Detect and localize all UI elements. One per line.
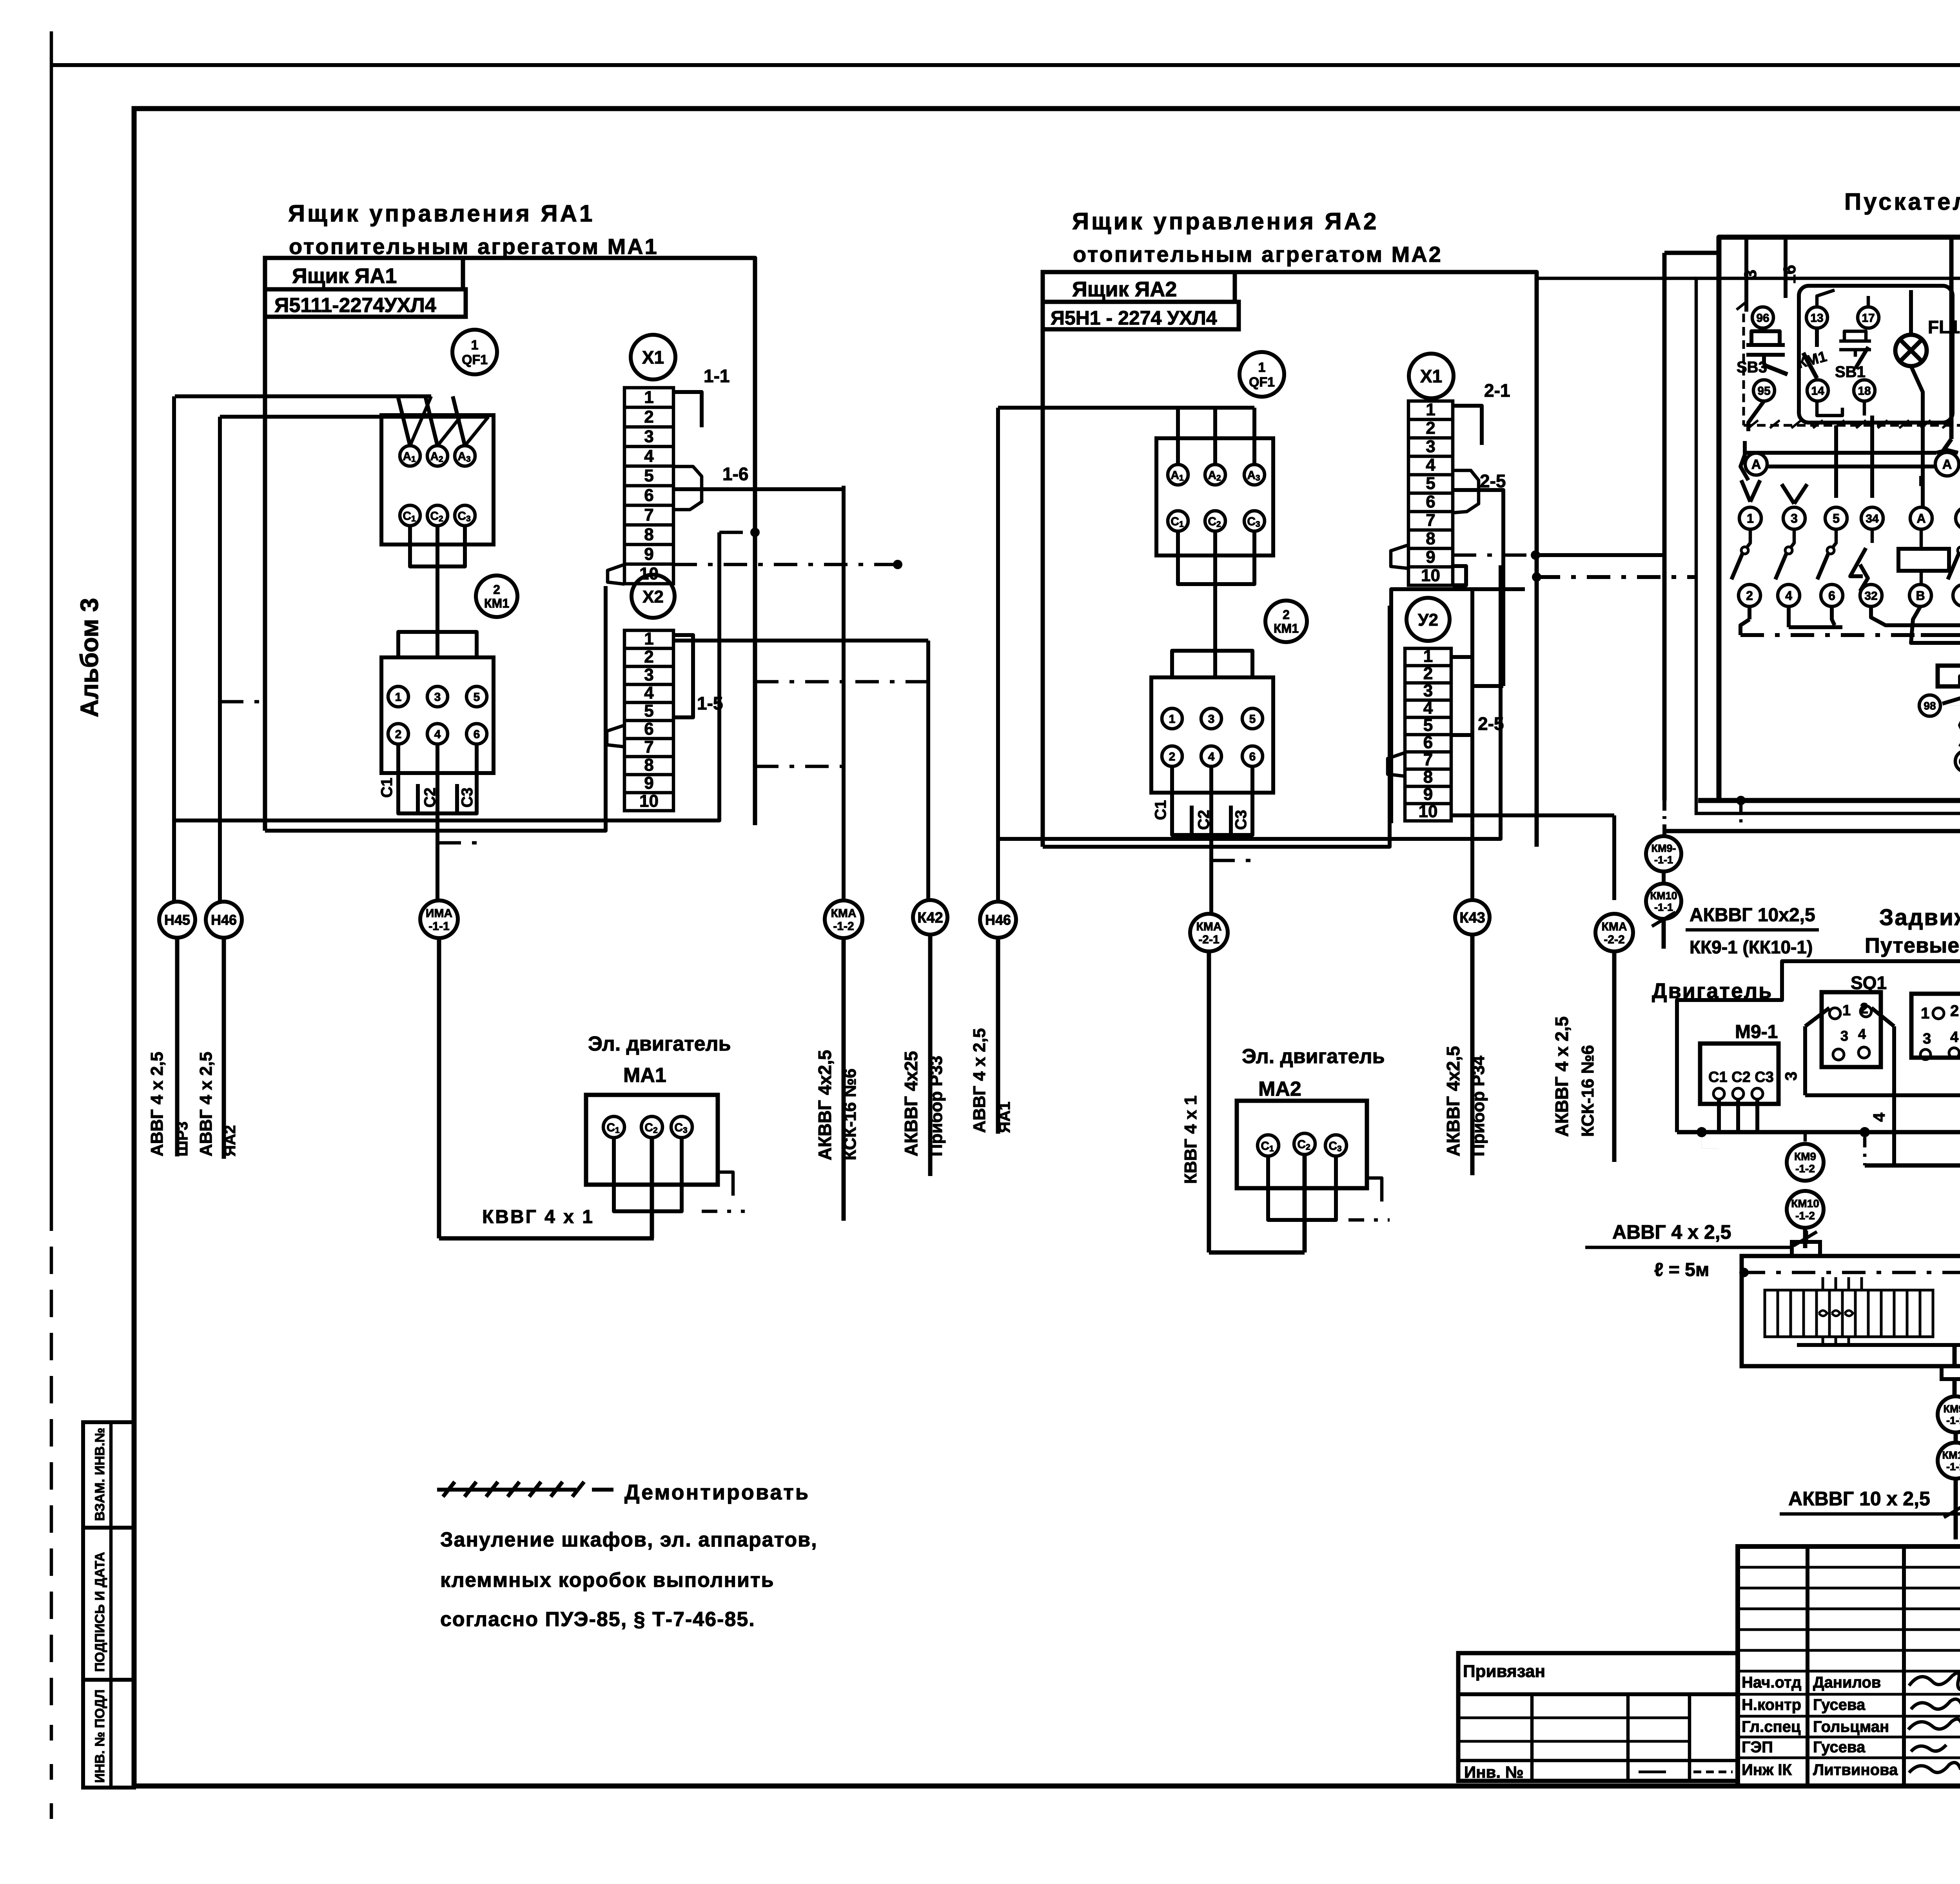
- svg-text:1: 1: [1258, 360, 1266, 375]
- svg-text:SB1: SB1: [1835, 363, 1866, 381]
- wires QF1 to KM1: [408, 526, 412, 552]
- wire H45 vertical: [172, 396, 176, 902]
- X1 YA2 cell10 hook: [1391, 545, 1408, 568]
- KM1 output stubs: [396, 744, 400, 800]
- SQ1 wire 3: [1803, 1026, 1807, 1095]
- wire 1-6: [673, 487, 844, 491]
- svg-text:SQ1: SQ1: [1851, 973, 1887, 993]
- svg-text:клеммных коробок выполнить: клеммных коробок выполнить: [440, 1569, 774, 1592]
- A bus merge: [1936, 450, 1958, 453]
- svg-text:1: 1: [644, 629, 653, 648]
- YA2 contact A3: [1244, 465, 1265, 485]
- contact group box SB1: [1799, 286, 1953, 423]
- svg-text:АКВВГ 10х2,5: АКВВГ 10х2,5: [1690, 905, 1815, 926]
- svg-text:3: 3: [1923, 1031, 1931, 1047]
- svg-text:-1-1: -1-1: [1654, 854, 1673, 866]
- svg-text:Данилов: Данилов: [1813, 1674, 1881, 1691]
- svg-text:КМ1: КМ1: [1274, 621, 1299, 635]
- svg-text:3: 3: [1791, 512, 1798, 526]
- svg-text:Задвижка М9-1 ( М 10-1): Задвижка М9-1 ( М 10-1): [1879, 905, 1960, 930]
- svg-text:4: 4: [1870, 1113, 1888, 1122]
- svg-text:6: 6: [644, 719, 653, 739]
- svg-text:Н46: Н46: [211, 912, 237, 928]
- svg-text:FL1: FL1: [1928, 317, 1960, 337]
- svg-text:Прибор Р33: Прибор Р33: [927, 1056, 946, 1156]
- svg-text:2: 2: [1169, 750, 1176, 763]
- svg-text:-1-2: -1-2: [1795, 1209, 1815, 1222]
- KM1 YA2 pole 6: [1242, 746, 1263, 766]
- KM1 pole 5: [466, 686, 487, 707]
- heater bottom bus: [1797, 1343, 1960, 1347]
- dashdot stub under KM1: [437, 841, 486, 845]
- terminal 14 SB1: [1807, 380, 1828, 401]
- wire KMA-1-2: [842, 486, 846, 900]
- branch to 5: [1834, 425, 1838, 498]
- svg-text:КК9-1 (КК10-1): КК9-1 (КК10-1): [1690, 937, 1813, 957]
- svg-text:КВВГ 4 х 1: КВВГ 4 х 1: [1181, 1096, 1200, 1184]
- svg-text:Н45: Н45: [164, 912, 190, 928]
- U2 left hook: [1388, 753, 1405, 776]
- contact C2: [427, 505, 448, 526]
- circle IMA-1-1: [420, 900, 458, 938]
- svg-text:5: 5: [1423, 715, 1433, 735]
- signature 2: [1911, 1699, 1960, 1709]
- svg-text:13: 13: [1810, 312, 1823, 325]
- motor MA2 C1: [1258, 1135, 1279, 1156]
- svg-text:А: А: [1942, 457, 1952, 472]
- heater block box: [1742, 1256, 1960, 1366]
- KM1 YA2 pole 2: [1162, 746, 1182, 766]
- svg-text:17: 17: [1862, 312, 1875, 325]
- titleblock main box: [1738, 1546, 1960, 1786]
- svg-text:3: 3: [1426, 437, 1435, 456]
- KM1 pole 2: [388, 724, 408, 744]
- terminal circle X1 YA2: [1409, 354, 1454, 398]
- YA2 dashdot stub: [1211, 859, 1260, 862]
- circle KMA-2-2: [1595, 914, 1633, 951]
- left margin stamp column: [83, 1422, 134, 1788]
- svg-text:КМ9: КМ9: [1794, 1151, 1816, 1163]
- wire H45 tail: [175, 938, 180, 1156]
- svg-text:Гольцман: Гольцман: [1813, 1718, 1889, 1735]
- svg-text:4: 4: [1858, 1026, 1866, 1042]
- motor MA1 box: [586, 1095, 718, 1185]
- zadvizhka bus lower: [1865, 1163, 1960, 1168]
- svg-text:2: 2: [644, 407, 653, 427]
- svg-text:-2-1: -2-1: [1198, 933, 1219, 946]
- svg-text:Пускатель: Пускатель: [1844, 189, 1960, 215]
- pole circle r1 34: [1861, 507, 1883, 529]
- svg-text:Н46: Н46: [985, 912, 1011, 928]
- bracket 1-1: [673, 392, 702, 427]
- svg-text:Инв. №: Инв. №: [1464, 1763, 1524, 1781]
- SB3 terminal 95: [1753, 380, 1775, 401]
- svg-text:Эл. двигатель: Эл. двигатель: [1242, 1045, 1385, 1068]
- svg-text:отопительным агрегатом МА: отопительным агрегатом МА1: [289, 234, 659, 259]
- wire 2-5a: [1453, 490, 1503, 565]
- svg-text:2-5: 2-5: [1480, 471, 1506, 491]
- svg-text:3: 3: [1423, 681, 1433, 700]
- svg-text:SB3: SB3: [1737, 359, 1767, 376]
- starter bottom bus: [1664, 829, 1960, 833]
- svg-text:6: 6: [644, 486, 653, 505]
- box YA1 label: [265, 258, 463, 289]
- svg-text:А: А: [1916, 512, 1926, 526]
- bus under row2 a: [1740, 619, 1749, 635]
- svg-text:9: 9: [1423, 784, 1433, 804]
- X2 wire right: [673, 639, 928, 643]
- svg-text:С3: С3: [1232, 810, 1250, 830]
- svg-text:КМ10: КМ10: [1942, 1449, 1960, 1461]
- wire KM9 left tail: [1662, 919, 1666, 949]
- svg-text:КМА: КМА: [1602, 920, 1627, 933]
- long wire lower1: [174, 532, 719, 820]
- wire H46 vertical: [218, 417, 222, 902]
- svg-text:6: 6: [1423, 733, 1433, 752]
- box SQ1: [1822, 992, 1881, 1067]
- motor MA1 C2: [641, 1116, 662, 1138]
- svg-text:7: 7: [644, 737, 653, 757]
- svg-text:-1-1: -1-1: [1946, 1461, 1960, 1473]
- wire H46b: [996, 408, 1000, 902]
- svg-text:6: 6: [1249, 750, 1256, 763]
- A circle 2: [1935, 452, 1959, 476]
- terminal circle X2: [632, 575, 675, 618]
- SQ1 wire 4: [1892, 1026, 1896, 1165]
- terminal strip X2: [624, 630, 673, 811]
- heater left bars: [1765, 1290, 1778, 1337]
- contact C1: [400, 505, 420, 526]
- U2 wire right: [1472, 684, 1503, 688]
- wire num 16: [1784, 237, 1788, 298]
- svg-text:МА2: МА2: [1258, 1078, 1301, 1100]
- branch to A: [1919, 476, 1923, 486]
- svg-text:В: В: [1916, 589, 1925, 603]
- branch to 3: [1782, 484, 1794, 504]
- switch 34: [1871, 529, 1874, 543]
- svg-text:7: 7: [1423, 750, 1433, 769]
- motor MA1 C1: [603, 1116, 624, 1138]
- svg-text:КМ9-: КМ9-: [1944, 1403, 1960, 1415]
- heater wire tab left: [1804, 1231, 1808, 1242]
- pole circle r2 2b: [1953, 584, 1960, 606]
- motor MA2 box: [1237, 1101, 1367, 1188]
- button SB3: [1751, 331, 1780, 345]
- QF1 contact box: [381, 415, 494, 545]
- svg-text:Гл.спец: Гл.спец: [1742, 1718, 1801, 1735]
- svg-text:А: А: [1751, 457, 1761, 472]
- pole circle r2 32: [1860, 584, 1882, 606]
- upper loop SB1 group: [1817, 401, 1842, 416]
- svg-text:-2-2: -2-2: [1604, 933, 1624, 946]
- svg-text:95: 95: [1757, 385, 1770, 397]
- wire IMA-1-1 tail: [437, 938, 441, 1238]
- bracket 2-1: [1453, 406, 1482, 445]
- bracket 2-5b: [1451, 657, 1472, 735]
- terminal strip X1: [624, 388, 673, 584]
- svg-text:-1-1: -1-1: [428, 920, 449, 933]
- KM1 YA2 contact box: [1151, 677, 1273, 793]
- svg-text:9: 9: [1426, 548, 1435, 567]
- svg-text:7: 7: [1426, 511, 1435, 530]
- svg-text:С3: С3: [459, 788, 476, 808]
- wire K42: [926, 641, 930, 898]
- svg-text:34: 34: [1866, 512, 1879, 525]
- svg-text:1: 1: [395, 691, 402, 704]
- enclosure YA1: [463, 258, 755, 825]
- motor MA2 C2: [1294, 1133, 1315, 1154]
- circle K42: [913, 900, 947, 935]
- svg-text:QF1: QF1: [462, 352, 488, 367]
- svg-text:ЯА2: ЯА2: [221, 1125, 239, 1156]
- svg-text:ВЗАМ. ИНВ.№: ВЗАМ. ИНВ.№: [93, 1428, 107, 1521]
- svg-text:ПОДПИСЬ И ДАТА: ПОДПИСЬ И ДАТА: [93, 1552, 107, 1672]
- motor M9-1 box: [1700, 1044, 1779, 1104]
- pole circle r1 5: [1825, 507, 1847, 529]
- motor MA1 C3: [671, 1116, 692, 1138]
- svg-text:1-1: 1-1: [704, 366, 730, 386]
- wire from YA1 drop: [1664, 251, 1719, 255]
- svg-text:К42: К42: [917, 910, 943, 926]
- KM1 jumpers top: [398, 632, 477, 657]
- pole circle r2 B: [1909, 584, 1931, 606]
- YA2 contact C3: [1244, 511, 1265, 531]
- zadvizhka enclosure: [1677, 961, 1960, 1132]
- signature 3: [1908, 1719, 1960, 1734]
- X1 cell10 hook: [608, 564, 624, 584]
- svg-text:3: 3: [644, 427, 653, 446]
- terminal C1 starter: [1955, 751, 1960, 772]
- X1 jog 4-6: [673, 466, 702, 510]
- left attach box: [1458, 1653, 1738, 1781]
- svg-text:Путевые выключатели: Путевые выключатели: [1865, 934, 1960, 957]
- pole circle r1 1: [1739, 507, 1761, 529]
- svg-text:АКВВГ 4 х 2,5: АКВВГ 4 х 2,5: [1552, 1016, 1572, 1137]
- circle H46b: [980, 902, 1016, 938]
- X1 YA2 cell9 dashdot: [1453, 554, 1537, 557]
- svg-text:18: 18: [1858, 385, 1871, 397]
- SQ1 levers: [1805, 1008, 1829, 1026]
- svg-text:КМ9-: КМ9-: [1651, 842, 1676, 854]
- svg-text:КМА: КМА: [831, 907, 857, 920]
- KM1 pole 4: [427, 724, 448, 744]
- starter outer box: [1719, 237, 1960, 800]
- svg-text:4: 4: [1426, 456, 1436, 475]
- X1 YA2 jog: [1453, 470, 1479, 513]
- svg-text:С1: С1: [378, 778, 396, 798]
- svg-text:1: 1: [1747, 512, 1754, 526]
- wire H46 tail: [222, 938, 226, 1159]
- dashdot to KMA-1-2: [755, 765, 844, 768]
- contact A1: [400, 446, 420, 466]
- svg-text:4: 4: [1423, 698, 1433, 717]
- terminal 18 SB1: [1854, 380, 1875, 401]
- svg-text:Прибор Р34: Прибор Р34: [1469, 1055, 1488, 1156]
- hatch ticks across: [1748, 420, 1758, 428]
- wire KM-1-2 tails: [1804, 1132, 1807, 1144]
- motor MA2 wires: [1266, 1156, 1270, 1208]
- svg-text:X1: X1: [1420, 366, 1442, 387]
- svg-text:6: 6: [1426, 492, 1435, 512]
- circle KM10-1-1 left: [1646, 884, 1681, 919]
- svg-text:96: 96: [1756, 312, 1769, 325]
- svg-text:QF1: QF1: [1249, 375, 1275, 390]
- QF1 YA2 contact box: [1156, 438, 1273, 555]
- circle KM10-1-1 bottom: [1938, 1443, 1960, 1479]
- svg-text:3: 3: [1741, 270, 1760, 279]
- svg-text:ШР3: ШР3: [174, 1122, 191, 1156]
- paper edge left: [50, 31, 53, 1231]
- svg-text:согласно ПУЭ-85, § Т-7-46-8: согласно ПУЭ-85, § Т-7-46-85.: [440, 1608, 755, 1631]
- svg-text:КМ10: КМ10: [1650, 890, 1677, 902]
- A circle 1: [1745, 453, 1767, 475]
- svg-text:АВВГ 4 х 2,5: АВВГ 4 х 2,5: [1612, 1221, 1731, 1243]
- svg-text:КВВГ 4 х 1: КВВГ 4 х 1: [482, 1207, 594, 1227]
- motor MA1 dashdot: [718, 1172, 733, 1196]
- svg-text:КСК-16 №6: КСК-16 №6: [1578, 1045, 1597, 1137]
- heater top tab left: [1792, 1242, 1820, 1256]
- svg-text:ЯА1: ЯА1: [996, 1102, 1013, 1133]
- YA2 dashdot to starter: [1537, 575, 1696, 579]
- svg-text:АВВГ 4 х 2,5: АВВГ 4 х 2,5: [970, 1028, 989, 1133]
- svg-text:Гусева: Гусева: [1813, 1696, 1866, 1713]
- svg-text:отопительным агрегатом МА: отопительным агрегатом МА2: [1073, 242, 1443, 267]
- svg-text:С2: С2: [1195, 810, 1212, 830]
- svg-text:С1: С1: [1958, 755, 1960, 769]
- svg-text:2: 2: [395, 728, 402, 741]
- svg-text:5: 5: [474, 691, 480, 704]
- svg-text:4: 4: [434, 728, 441, 741]
- svg-text:Гусева: Гусева: [1813, 1739, 1866, 1756]
- svg-text:98: 98: [1924, 700, 1936, 712]
- svg-text:3: 3: [644, 665, 653, 684]
- svg-text:4: 4: [1208, 750, 1215, 763]
- svg-text:У2: У2: [1418, 610, 1438, 630]
- contactor KM1 circle: [476, 575, 517, 617]
- svg-text:Альбом 3: Альбом 3: [75, 598, 103, 717]
- svg-text:Ящик ЯА1: Ящик ЯА1: [292, 264, 397, 288]
- long wire lower2: [265, 586, 606, 831]
- svg-text:4: 4: [644, 446, 654, 466]
- pole circle r1 A: [1910, 507, 1932, 529]
- terminal circle X1: [631, 335, 675, 379]
- dashdot into YA1 left: [220, 700, 265, 704]
- svg-text:3: 3: [1840, 1028, 1848, 1044]
- svg-text:9: 9: [644, 773, 653, 793]
- starter inner box: [1696, 278, 1960, 813]
- svg-text:10: 10: [1421, 566, 1440, 585]
- switch poles row: [1746, 529, 1750, 548]
- circle KM9-1-1 left: [1646, 836, 1681, 871]
- svg-text:Нач.отд: Нач.отд: [1742, 1674, 1801, 1691]
- terminal strip U2: [1405, 648, 1451, 821]
- YA2 wires QF1 to KM1: [1176, 531, 1180, 570]
- svg-text:АВВГ 4 х 2,5: АВВГ 4 х 2,5: [196, 1052, 216, 1156]
- dashdot seg1: [719, 531, 755, 534]
- KM1 YA2 pole 5: [1242, 708, 1263, 729]
- demolish legend line: [437, 1488, 576, 1492]
- svg-text:7: 7: [644, 505, 653, 525]
- KM1 YA2 pole 4: [1201, 746, 1221, 766]
- svg-text:14: 14: [1811, 385, 1824, 397]
- svg-text:2: 2: [1426, 419, 1435, 438]
- paper edge top: [51, 63, 1960, 67]
- svg-text:5: 5: [644, 701, 653, 721]
- button SB1: [1844, 331, 1866, 341]
- svg-text:КМА: КМА: [1196, 920, 1222, 933]
- svg-text:М9-1: М9-1: [1735, 1022, 1778, 1042]
- svg-text:5: 5: [644, 466, 653, 485]
- circle KMA-2-1: [1190, 914, 1228, 951]
- wire 3 horizontal: [1805, 1093, 1960, 1097]
- YA2 contact C2: [1205, 511, 1225, 531]
- terminal 17 SB1: [1858, 307, 1879, 328]
- svg-text:Эл. двигатель: Эл. двигатель: [588, 1033, 731, 1055]
- wire center drop: [1949, 237, 1954, 439]
- bracket 1-5: [673, 635, 693, 717]
- svg-text:3: 3: [1782, 1071, 1800, 1080]
- X1 cell9 dashdot right: [673, 563, 898, 566]
- svg-text:-1-1: -1-1: [1654, 902, 1673, 913]
- YA2 contact C1: [1168, 511, 1188, 531]
- svg-text:-1-1: -1-1: [1946, 1415, 1960, 1427]
- circle KM9-1-1 bottom: [1938, 1396, 1960, 1432]
- svg-text:8: 8: [644, 525, 653, 544]
- wire H46b tail: [996, 938, 1000, 1134]
- svg-text:МА1: МА1: [623, 1064, 666, 1087]
- wire KMA-2-1: [1209, 914, 1213, 933]
- KM1 pole 1: [388, 686, 408, 707]
- svg-text:ℓ = 5м: ℓ = 5м: [1654, 1260, 1709, 1280]
- svg-text:10: 10: [639, 564, 659, 583]
- YA2 contact A2: [1205, 465, 1225, 485]
- contactor KM1 YA2 circle: [1265, 601, 1307, 642]
- thermal contact 98-97: [1919, 695, 1940, 716]
- wire KMA-2-2: [1612, 815, 1616, 900]
- wire K43 tail: [1470, 935, 1475, 1175]
- branch to 1: [1741, 480, 1750, 502]
- contact A3: [455, 446, 475, 466]
- svg-text:ГЭП: ГЭП: [1742, 1739, 1773, 1756]
- svg-text:5: 5: [1426, 474, 1435, 493]
- pole circle r2 2: [1739, 584, 1760, 606]
- motor MA1 wires: [612, 1138, 616, 1200]
- svg-text:Привязан: Привязан: [1463, 1662, 1545, 1681]
- svg-text:Инж IК: Инж IК: [1742, 1761, 1792, 1779]
- svg-text:6: 6: [1828, 589, 1835, 603]
- pole circle r1 3: [1783, 507, 1805, 529]
- svg-text:3: 3: [1208, 713, 1215, 726]
- svg-text:4: 4: [1950, 1029, 1958, 1045]
- svg-text:1: 1: [644, 388, 653, 407]
- mid box A: [1911, 994, 1960, 1058]
- circle H45: [159, 902, 195, 938]
- svg-text:Я5111-2274УХЛ4: Я5111-2274УХЛ4: [274, 294, 436, 317]
- circle KM9-1-2: [1787, 1144, 1824, 1181]
- FL1 wires: [1909, 290, 1913, 335]
- SB3 terminal 96: [1752, 307, 1773, 328]
- branch to 34: [1870, 416, 1874, 498]
- svg-text:10: 10: [639, 791, 659, 811]
- svg-text:32: 32: [1864, 590, 1877, 603]
- pole circle r2 6: [1821, 584, 1843, 606]
- dashdot to K42: [755, 680, 928, 684]
- svg-text:8: 8: [1423, 767, 1433, 786]
- wire KMA-2-1 tail: [1207, 951, 1211, 1252]
- KM1 YA2 outputs: [1170, 766, 1174, 822]
- terminal strip X1 YA2: [1408, 401, 1453, 585]
- YA2 contact A1: [1168, 465, 1188, 485]
